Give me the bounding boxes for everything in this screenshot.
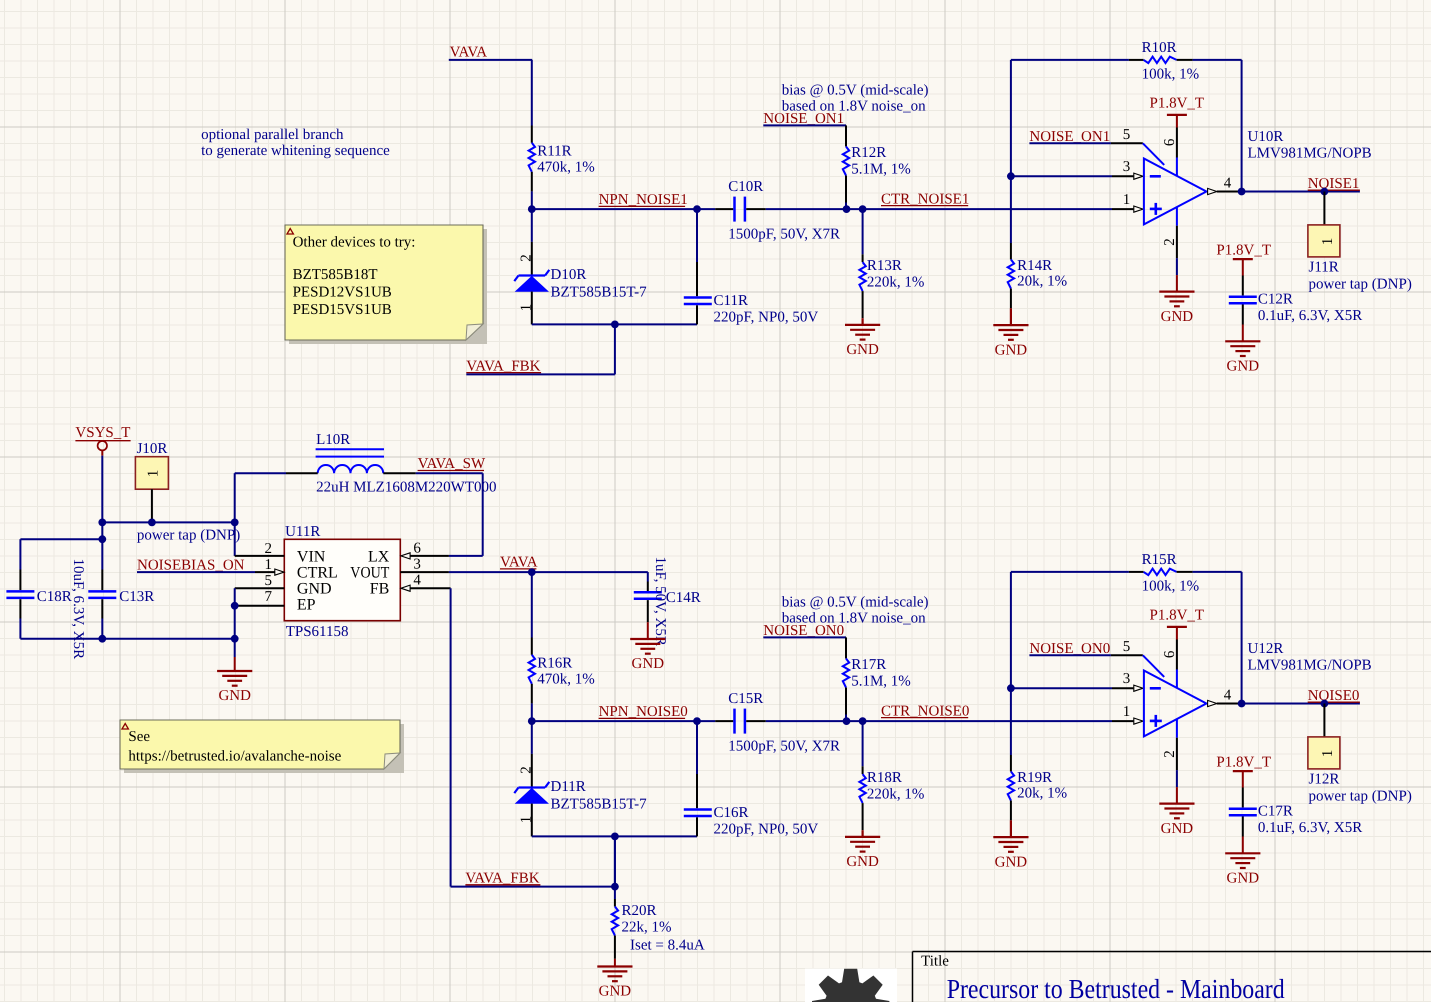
net label NOISE_ON0 at op-amp pin 5 (1029, 639, 1142, 657)
svg-text:D11R: D11R (551, 779, 586, 795)
svg-text:GND: GND (599, 984, 632, 1000)
wire U11R ground column (234, 588, 236, 639)
net label VSYS_T (75, 425, 130, 441)
ground below C14R (630, 622, 665, 672)
svg-text:100k, 1%: 100k, 1% (1142, 579, 1200, 595)
junction (1007, 172, 1015, 180)
pin 6 LX (401, 541, 449, 559)
svg-text:CTRL: CTRL (297, 564, 338, 581)
svg-text:0.1uF, 6.3V, X5R: 0.1uF, 6.3V, X5R (1258, 308, 1362, 324)
pin circle VSYS_T (98, 441, 107, 456)
svg-text:P1.8V_T: P1.8V_T (1216, 243, 1271, 259)
ground below R13R (845, 318, 880, 358)
svg-text:220k, 1%: 220k, 1% (867, 275, 925, 291)
ground at op-amp pin 2 (1159, 787, 1194, 837)
resistor R15R feedback (1011, 552, 1242, 703)
svg-text:power tap (DNP): power tap (DNP) (1309, 276, 1412, 292)
svg-text:R18R: R18R (867, 770, 902, 786)
svg-text:220k, 1%: 220k, 1% (867, 787, 925, 803)
wire NPN_NOISE1 (532, 208, 715, 210)
svg-text:P1.8V_T: P1.8V_T (1216, 755, 1271, 771)
pin 1 CTRL (255, 557, 284, 575)
svg-text:R12R: R12R (851, 145, 886, 161)
svg-text:R16R: R16R (537, 655, 572, 671)
wire VAVA_SW (416, 473, 483, 556)
svg-text:4: 4 (1224, 688, 1232, 704)
wire VSYS_T down (101, 456, 103, 523)
svg-text:https://betrusted.io/avalanche: https://betrusted.io/avalanche-noise (128, 748, 341, 764)
svg-text:22k, 1%: 22k, 1% (622, 919, 672, 935)
wire top rail (102, 521, 234, 523)
svg-text:Title: Title (921, 954, 949, 970)
svg-text:2: 2 (265, 541, 273, 557)
svg-text:U11R: U11R (285, 524, 320, 540)
svg-text:470k, 1%: 470k, 1% (537, 672, 595, 688)
svg-text:6: 6 (1162, 138, 1178, 146)
svg-text:5: 5 (1123, 639, 1131, 655)
wire to VAVA_FBK (614, 324, 616, 374)
ground below R20R (597, 959, 632, 1000)
connector J10R (135, 441, 168, 523)
power P1.8V_T at op-amp (1150, 95, 1205, 157)
junction EP (231, 602, 239, 610)
net label CTR_NOISE1 (881, 191, 969, 207)
svg-text:3: 3 (413, 557, 421, 573)
svg-text:P1.8V_T: P1.8V_T (1150, 95, 1205, 111)
op-amp U10R (1143, 129, 1372, 275)
junction at output (1238, 188, 1246, 196)
svg-text:VAVA_SW: VAVA_SW (418, 456, 486, 472)
svg-text:100k, 1%: 100k, 1% (1142, 67, 1200, 83)
op-amp output arrow pin 4 (1208, 688, 1242, 707)
svg-text:U10R: U10R (1248, 129, 1284, 145)
junction (693, 717, 866, 725)
logo gear (805, 969, 897, 1007)
capacitor C16R (684, 721, 819, 837)
svg-text:LX: LX (368, 548, 390, 565)
wire VAVA_FBK bottom (451, 836, 615, 886)
net label NOISE_ON1 at R12R (763, 111, 846, 127)
wire to VAVA_FBK (614, 836, 616, 886)
svg-text:Precursor to Betrusted - Mainb: Precursor to Betrusted - Mainboard (947, 973, 1285, 1002)
svg-text:R15R: R15R (1142, 552, 1177, 568)
wire VAVA_FBK (466, 373, 615, 375)
resistor R12R (843, 125, 911, 209)
IC U11R (284, 524, 400, 640)
svg-text:GND: GND (1227, 871, 1260, 887)
pin 5 GND (235, 573, 285, 589)
svg-text:C13R: C13R (119, 589, 154, 605)
svg-text:EP: EP (297, 597, 316, 614)
svg-text:LMV981MG/NOPB: LMV981MG/NOPB (1248, 657, 1372, 673)
junction (611, 833, 619, 841)
svg-text:BZT585B15T-7: BZT585B15T-7 (551, 285, 648, 301)
svg-text:2: 2 (518, 766, 534, 774)
power P1.8V_T at C12R (1216, 243, 1271, 276)
ground below C12R (1225, 325, 1260, 375)
svg-text:3: 3 (1123, 159, 1131, 175)
node NPN_NOISE1 junction (528, 205, 536, 213)
wire CTR_NOISE1 (766, 208, 1112, 210)
wire VAVA vertical (531, 60, 533, 126)
svg-text:J10R: J10R (137, 441, 168, 457)
svg-text:power tap (DNP): power tap (DNP) (137, 528, 240, 544)
svg-text:based on 1.8V noise_on: based on 1.8V noise_on (782, 611, 926, 627)
power P1.8V_T at op-amp (1150, 607, 1205, 669)
svg-text:1: 1 (518, 816, 534, 824)
resistor R14R (1008, 176, 1067, 308)
capacitor C10R (715, 179, 840, 242)
resistor R20R (612, 887, 705, 959)
wire diode bottom rail (532, 835, 697, 837)
ground below R14R (993, 308, 1028, 358)
svg-text:Iset = 8.4uA: Iset = 8.4uA (630, 937, 705, 953)
svg-text:VOUT: VOUT (350, 564, 389, 581)
title Precursor to Betrusted - Mainboard (947, 973, 1285, 1004)
svg-text:PESD12VS1UB: PESD12VS1UB (293, 285, 392, 301)
comment bias text (782, 594, 929, 626)
power P1.8V_T at C17R (1216, 755, 1271, 788)
svg-text:to generate whitening sequence: to generate whitening sequence (201, 143, 390, 159)
wire to non-inverting input (1112, 720, 1133, 722)
note Other devices to try (285, 225, 487, 344)
inductor L10R (286, 432, 497, 496)
svg-text:C10R: C10R (728, 179, 763, 195)
svg-text:bias @ 0.5V (mid-scale): bias @ 0.5V (mid-scale) (782, 82, 929, 98)
svg-text:1: 1 (1123, 704, 1131, 720)
title block text (921, 954, 949, 970)
svg-text:VAVA: VAVA (450, 44, 488, 60)
svg-text:1: 1 (145, 470, 161, 478)
svg-text:R19R: R19R (1017, 770, 1052, 786)
svg-text:VIN: VIN (297, 548, 326, 565)
title block border (913, 952, 1431, 1003)
connector J11R (1308, 192, 1412, 293)
svg-text:GND: GND (846, 342, 879, 358)
pin 1 arrow (1123, 192, 1143, 212)
pin 3 VOUT (400, 557, 648, 573)
wire left branch (20, 539, 102, 569)
junction (693, 205, 866, 213)
svg-text:FB: FB (370, 581, 390, 598)
svg-text:J12R: J12R (1309, 772, 1340, 788)
net label VAVA_SW (418, 456, 486, 472)
net label VAVA (449, 44, 532, 60)
capacitor C17R (1229, 788, 1362, 837)
resistor R19R (1008, 688, 1067, 820)
svg-text:C11R: C11R (714, 293, 748, 309)
svg-text:4: 4 (1224, 176, 1232, 192)
svg-text:1: 1 (1320, 238, 1336, 246)
wire CTR_NOISE0 (766, 720, 1112, 722)
svg-text:0.1uF, 6.3V, X5R: 0.1uF, 6.3V, X5R (1258, 820, 1362, 836)
svg-text:5.1M, 1%: 5.1M, 1% (851, 161, 911, 177)
net label NOISE_ON0 at R17R (763, 623, 846, 639)
svg-text:R10R: R10R (1142, 40, 1177, 56)
svg-text:bias @ 0.5V (mid-scale): bias @ 0.5V (mid-scale) (782, 594, 929, 610)
svg-text:BZT585B15T-7: BZT585B15T-7 (551, 797, 648, 813)
svg-text:1uF, 50V, X5R: 1uF, 50V, X5R (652, 557, 668, 646)
svg-text:4: 4 (413, 573, 421, 589)
wire NPN_NOISE0 (532, 720, 715, 722)
pin 7 EP (235, 589, 285, 606)
capacitor C11R (684, 209, 819, 325)
svg-text:power tap (DNP): power tap (DNP) (1309, 788, 1412, 804)
ground below C17R (1225, 837, 1260, 887)
svg-text:optional parallel branch: optional parallel branch (201, 127, 344, 143)
svg-text:1: 1 (1123, 192, 1131, 208)
svg-text:10uF, 6.3V, X5R: 10uF, 6.3V, X5R (70, 559, 86, 660)
svg-text:CTR_NOISE0: CTR_NOISE0 (881, 703, 969, 719)
svg-text:TPS61158: TPS61158 (286, 624, 349, 640)
net label NOISE0 (1242, 688, 1360, 704)
wire rail to VIN (234, 522, 236, 556)
svg-text:GND: GND (297, 581, 332, 598)
svg-text:5: 5 (265, 573, 273, 589)
svg-text:C18R: C18R (37, 589, 72, 605)
svg-text:5.1M, 1%: 5.1M, 1% (851, 673, 911, 689)
svg-text:C14R: C14R (666, 590, 701, 606)
connector J12R (1308, 704, 1412, 805)
net label VAVA_FBK bottom (465, 871, 540, 887)
net label CTR_NOISE0 (881, 703, 969, 719)
pin 2 VIN (235, 541, 285, 557)
svg-text:Other devices to try:: Other devices to try: (293, 234, 416, 250)
svg-text:CTR_NOISE1: CTR_NOISE1 (881, 191, 969, 207)
svg-text:R14R: R14R (1017, 258, 1052, 274)
svg-text:PESD15VS1UB: PESD15VS1UB (293, 302, 392, 318)
junctions bottom rail (98, 635, 238, 643)
svg-text:470k, 1%: 470k, 1% (537, 160, 595, 176)
svg-text:R11R: R11R (537, 143, 571, 159)
resistor R16R (529, 638, 595, 722)
resistor R17R (843, 637, 911, 721)
svg-text:C16R: C16R (714, 805, 749, 821)
svg-text:C15R: C15R (728, 691, 763, 707)
wire to inverting input (1011, 687, 1134, 689)
junction (1007, 684, 1015, 692)
net label NPN_NOISE1 (599, 192, 688, 208)
net label NOISE_ON1 at op-amp pin 5 (1029, 127, 1142, 145)
pin 4 FB (401, 573, 451, 592)
resistor R11R (529, 126, 595, 210)
svg-text:R17R: R17R (851, 657, 886, 673)
svg-text:GND: GND (995, 854, 1028, 870)
capacitor C13R (88, 522, 154, 638)
capacitor C18R (6, 559, 86, 660)
svg-text:220pF, NP0, 50V: 220pF, NP0, 50V (714, 309, 819, 325)
svg-text:GND: GND (846, 854, 879, 870)
net label NPN_NOISE0 (599, 704, 688, 720)
svg-text:20k, 1%: 20k, 1% (1017, 786, 1067, 802)
svg-text:J11R: J11R (1309, 260, 1339, 276)
svg-text:2: 2 (1162, 238, 1178, 246)
comment power tap DNP (137, 528, 240, 544)
svg-text:based on 1.8V noise_on: based on 1.8V noise_on (782, 99, 926, 115)
svg-text:D10R: D10R (551, 267, 587, 283)
svg-text:1500pF, 50V, X7R: 1500pF, 50V, X7R (728, 226, 840, 242)
junction VAVA_FBK (611, 883, 619, 891)
svg-text:GND: GND (632, 656, 665, 672)
net label NOISE1 (1242, 176, 1360, 192)
junction C13R top (98, 535, 106, 543)
pin 3 arrow (1123, 671, 1143, 691)
svg-text:GND: GND (995, 342, 1028, 358)
svg-text:3: 3 (1123, 671, 1131, 687)
svg-text:GND: GND (1161, 309, 1194, 325)
svg-text:2: 2 (518, 254, 534, 262)
pin 3 arrow (1123, 159, 1143, 179)
svg-text:6: 6 (413, 541, 421, 557)
svg-text:22uH MLZ1608M220WT000: 22uH MLZ1608M220WT000 (316, 480, 496, 496)
resistor R18R (859, 721, 924, 830)
pin 1 arrow (1123, 704, 1143, 724)
svg-text:L10R: L10R (316, 432, 350, 448)
junction (1321, 700, 1329, 708)
junction (611, 321, 619, 329)
junctions top rail (98, 519, 238, 527)
comment optional parallel branch (201, 127, 390, 159)
svg-text:GND: GND (1227, 359, 1260, 375)
net label VAVA_FBK (466, 358, 541, 374)
ground below R18R (845, 830, 880, 870)
junction (1321, 188, 1329, 196)
capacitor C12R (1229, 276, 1362, 325)
ground below R19R (993, 820, 1028, 870)
svg-text:7: 7 (265, 589, 273, 605)
svg-text:BZT585B18T: BZT585B18T (293, 267, 378, 283)
wire inductor left (235, 473, 286, 522)
zener diode D10R (514, 209, 647, 324)
svg-text:2: 2 (1162, 750, 1178, 758)
wire FB to VAVA_FBK (450, 588, 452, 886)
capacitor C14R (634, 557, 701, 646)
svg-text:VSYS_T: VSYS_T (75, 425, 130, 441)
wire to non-inverting input (1112, 208, 1133, 210)
capacitor C15R (715, 691, 840, 754)
wire bottom rail (20, 638, 234, 640)
svg-text:220pF, NP0, 50V: 220pF, NP0, 50V (714, 821, 819, 837)
svg-text:VAVA: VAVA (500, 555, 538, 571)
svg-text:20k, 1%: 20k, 1% (1017, 274, 1067, 290)
wire VAVA vertical to R16R (531, 572, 533, 637)
svg-text:1: 1 (518, 304, 534, 312)
svg-text:GND: GND (218, 688, 251, 704)
svg-text:6: 6 (1162, 650, 1178, 658)
svg-text:GND: GND (1161, 821, 1194, 837)
svg-text:P1.8V_T: P1.8V_T (1150, 607, 1205, 623)
svg-text:C12R: C12R (1258, 291, 1293, 307)
net label NOISEBIAS_ON (137, 558, 255, 574)
svg-text:U12R: U12R (1248, 641, 1284, 657)
svg-text:1500pF, 50V, X7R: 1500pF, 50V, X7R (728, 738, 840, 754)
resistor R13R (859, 209, 924, 318)
svg-text:LMV981MG/NOPB: LMV981MG/NOPB (1248, 145, 1372, 161)
ground at op-amp pin 2 (1159, 275, 1194, 325)
svg-text:C17R: C17R (1258, 803, 1293, 819)
svg-text:See: See (128, 729, 150, 745)
svg-text:R20R: R20R (622, 903, 657, 919)
svg-text:1: 1 (1320, 750, 1336, 758)
junction at output (1238, 700, 1246, 708)
svg-text:1: 1 (265, 557, 273, 573)
note See betrusted link (120, 720, 404, 773)
ground U11R (217, 639, 252, 705)
comment bias text (782, 82, 929, 114)
junction VAVA (528, 568, 536, 576)
net label VAVA at VOUT (500, 555, 538, 571)
wire diode bottom rail (532, 323, 697, 325)
resistor R10R feedback (1011, 40, 1242, 191)
zener diode D11R (514, 721, 647, 836)
node NPN_NOISE0 junction (528, 717, 536, 725)
svg-text:5: 5 (1123, 127, 1131, 143)
op-amp output arrow pin 4 (1208, 176, 1242, 195)
wire to inverting input (1011, 175, 1134, 177)
svg-text:R13R: R13R (867, 258, 902, 274)
op-amp U12R (1143, 641, 1372, 787)
